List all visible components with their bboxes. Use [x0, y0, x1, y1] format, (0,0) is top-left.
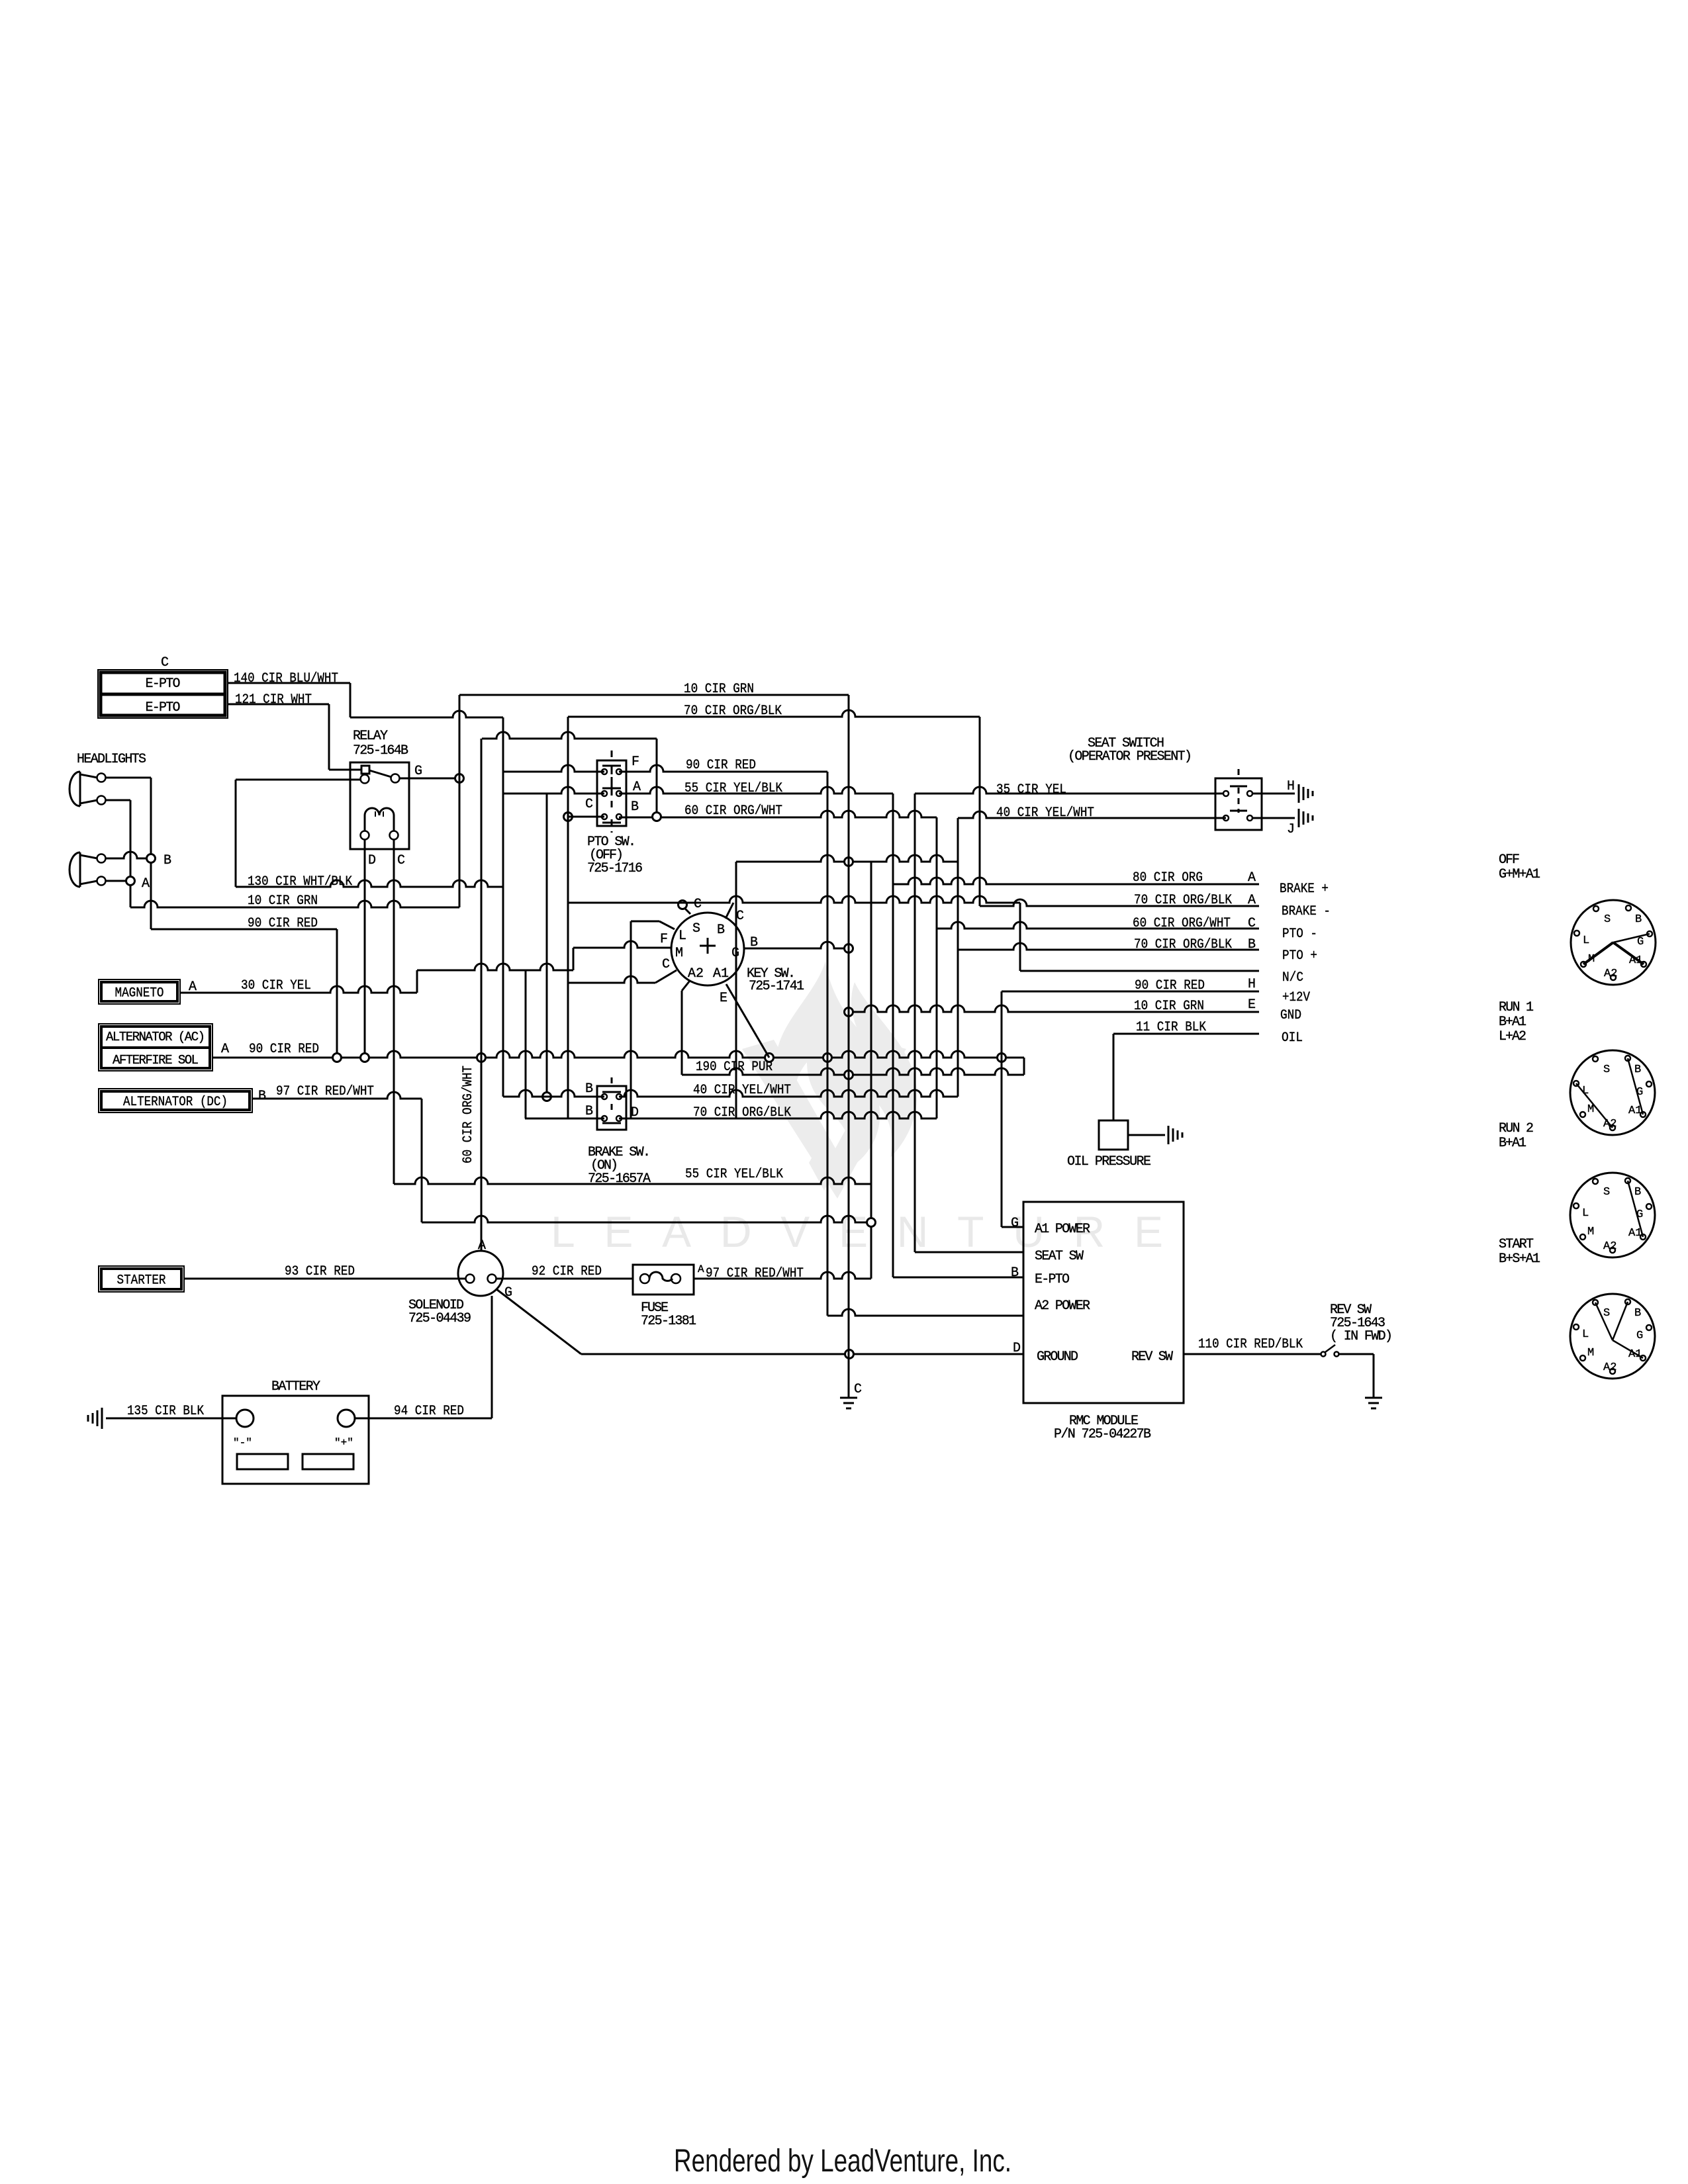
wire E-PTO to PTO+ run: [736, 855, 958, 862]
svg-text:J: J: [1287, 822, 1295, 837]
svg-text:BRAKE -: BRAKE -: [1282, 904, 1331, 919]
key C top-left diagonal: [682, 906, 690, 914]
wire A1 feeder from alternator: [422, 1216, 871, 1222]
watermark flame logo: [742, 961, 917, 1199]
wire 90 CIR RED main bus: [212, 1051, 1024, 1058]
pto switch box: [597, 760, 626, 826]
svg-text:B: B: [1634, 1064, 1641, 1076]
wire 70 ORG/BLK brake left: [525, 1118, 604, 1120]
wire 10 CIR GRN main vertical bus: [848, 695, 850, 1354]
svg-text:"+": "+": [334, 1437, 353, 1449]
brake pin B top left: [602, 1094, 607, 1099]
key position START diagram: [1570, 1294, 1655, 1379]
svg-text:E: E: [1248, 997, 1256, 1013]
earth ground C: [840, 1397, 857, 1399]
junction 90RED key E: [765, 1054, 774, 1062]
headlight 2 terminal top: [97, 854, 106, 863]
wire RMC E-PTO pin: [893, 1277, 1023, 1279]
key E diagonal: [726, 984, 769, 1058]
headlight 1 terminal top: [97, 774, 106, 782]
svg-text:A2: A2: [688, 966, 704, 981]
junction GND on GRN bus: [845, 1008, 853, 1017]
wire 10 CIR GRN / GND: [849, 1005, 1259, 1012]
wire 121 to relay pin 1: [329, 769, 361, 771]
wire 11 CIR BLK to oil pressure: [1113, 1034, 1115, 1120]
wire PTO F row left: [503, 765, 604, 772]
wire key C left: [568, 976, 655, 983]
svg-text:135 CIR BLK: 135 CIR BLK: [127, 1404, 204, 1419]
relay box: [350, 762, 409, 849]
svg-text:REV SW: REV SW: [1131, 1349, 1173, 1365]
alternator AC / afterfire box: [99, 1024, 212, 1071]
wire headlight1 bottom to A: [106, 799, 130, 801]
svg-text:B: B: [1635, 913, 1642, 926]
svg-text:93 CIR RED: 93 CIR RED: [285, 1264, 355, 1279]
pto pin B right: [616, 814, 622, 819]
relay coil pin D: [361, 831, 369, 840]
wire oil pressure to ground: [1128, 1134, 1165, 1136]
wire 55 CIR YEL/BLK lower: [394, 1177, 871, 1184]
battery negative ground: [101, 1408, 103, 1429]
wire 55 CIR YEL/BLK: [619, 787, 893, 794]
svg-text:140 CIR BLU/WHT: 140 CIR BLU/WHT: [234, 671, 338, 686]
svg-text:S: S: [1603, 1307, 1610, 1320]
battery box: [222, 1396, 369, 1484]
svg-text:A1: A1: [1628, 1227, 1642, 1240]
wire rev switch ground vertical: [1373, 1354, 1375, 1398]
svg-text:35 CIR YEL: 35 CIR YEL: [996, 782, 1066, 797]
wire 70 CIR ORG/BLK / BRAKE-: [980, 899, 1259, 906]
wire 40 CIR YEL/WHT seat: [958, 811, 1226, 818]
svg-text:RUN 2: RUN 2: [1499, 1121, 1534, 1136]
pto switch A contact bar: [602, 788, 621, 790]
svg-text:C: C: [854, 1382, 862, 1397]
svg-text:MAGNETO: MAGNETO: [115, 986, 164, 1001]
wire node A vertical: [130, 800, 132, 907]
svg-text:B+A1: B+A1: [1499, 1136, 1526, 1151]
junction 40 YEL/WHT: [543, 1093, 551, 1101]
wire 10 CIR GRN lower: [130, 901, 459, 907]
wire 35 CIR YEL to RMC SEAT SW vertical: [914, 794, 916, 1252]
svg-text:A: A: [478, 1238, 486, 1253]
svg-text:725-04439: 725-04439: [408, 1311, 471, 1326]
svg-text:B: B: [1634, 1307, 1641, 1320]
pto switch F contact bar: [602, 765, 621, 767]
seat pin H right: [1247, 791, 1252, 796]
wire 30 CIR YEL jog1: [416, 970, 418, 993]
svg-text:A: A: [142, 876, 150, 891]
svg-text:A1: A1: [713, 966, 729, 981]
svg-text:G+M+A1: G+M+A1: [1499, 867, 1540, 882]
svg-text:A1: A1: [1628, 1105, 1642, 1117]
svg-text:725-164B: 725-164B: [353, 743, 408, 758]
brake switch dashed actuator: [611, 1077, 613, 1087]
svg-text:N/C: N/C: [1282, 970, 1303, 985]
headlight 2 terminal bottom: [97, 877, 106, 886]
junction ground C: [845, 1350, 854, 1359]
key position OFF diagram: [1571, 900, 1656, 985]
seat switch box: [1215, 778, 1262, 830]
svg-text:725-1741: 725-1741: [749, 979, 804, 994]
relay coil pin C: [390, 831, 399, 840]
wire 55 net long vertical: [892, 794, 894, 1277]
svg-text:S: S: [1603, 1064, 1610, 1076]
svg-text:B+A1: B+A1: [1499, 1015, 1526, 1030]
fuse pin right: [671, 1274, 680, 1283]
svg-text:A2: A2: [1604, 968, 1617, 980]
svg-text:B: B: [164, 853, 171, 868]
wire 90 CIR RED pto vertical / A2 feeder: [827, 772, 829, 1316]
RMC module box: [1023, 1202, 1184, 1403]
solenoid pin left: [466, 1275, 475, 1283]
wire solenoid branch to PTO: [482, 732, 657, 739]
wire 35 CIR YEL to seat: [915, 787, 1226, 794]
wire key C line: [568, 896, 1020, 903]
svg-text:S: S: [1604, 913, 1611, 926]
wire PTO B row left: [568, 816, 604, 818]
svg-text:C: C: [161, 655, 169, 670]
wire 60 CIR ORG/WHT solenoid feed vertical: [481, 739, 483, 1251]
svg-text:A: A: [221, 1042, 229, 1057]
svg-text:Rendered by LeadVenture, Inc.: Rendered by LeadVenture, Inc.: [674, 2144, 1011, 2179]
pto switch B contact bar: [602, 822, 621, 824]
svg-text:HEADLIGHTS: HEADLIGHTS: [77, 752, 146, 767]
svg-text:ALTERNATOR (DC): ALTERNATOR (DC): [123, 1095, 228, 1110]
svg-text:L+A2: L+A2: [1499, 1029, 1526, 1044]
svg-text:C: C: [736, 909, 744, 924]
rev switch blade: [1325, 1345, 1335, 1352]
wire 40 YEL/WHT brake right: [619, 1090, 958, 1097]
wire seat H to ground: [1252, 793, 1295, 795]
relay coil: [365, 808, 394, 835]
svg-text:P/N 725-04227B: P/N 725-04227B: [1054, 1427, 1151, 1442]
svg-text:C: C: [694, 897, 702, 912]
solenoid pin right: [488, 1275, 496, 1283]
seat pin J right: [1247, 815, 1252, 821]
svg-text:60 CIR ORG/WHT: 60 CIR ORG/WHT: [461, 1066, 476, 1163]
svg-text:A2 POWER: A2 POWER: [1035, 1298, 1090, 1314]
svg-text:G: G: [414, 764, 422, 779]
svg-text:H: H: [1248, 977, 1256, 992]
wire 70 CIR ORG/BLK top left segment: [350, 711, 503, 717]
wire 90 CIR RED pto F out: [619, 765, 827, 772]
svg-text:97 CIR RED/WHT: 97 CIR RED/WHT: [276, 1084, 374, 1099]
svg-text:94 CIR RED: 94 CIR RED: [394, 1404, 464, 1419]
svg-text:G: G: [1636, 1330, 1643, 1342]
svg-text:C: C: [585, 797, 593, 812]
wire 90 CIR RED headlights: [151, 929, 337, 931]
seat switch dashed actuator: [1238, 769, 1240, 778]
wire GROUND line: [581, 1353, 1023, 1355]
brake pin top right: [616, 1094, 622, 1099]
wire 130 CIR WHT/BLK: [236, 880, 503, 887]
wire vertical to PTO B junction: [656, 739, 658, 817]
svg-text:A1 POWER: A1 POWER: [1035, 1222, 1090, 1237]
battery cell 2: [303, 1454, 353, 1469]
svg-text:190 CIR PUR: 190 CIR PUR: [696, 1060, 773, 1075]
svg-text:L: L: [679, 929, 686, 944]
svg-text:E-PTO: E-PTO: [1035, 1272, 1070, 1287]
svg-text:C: C: [397, 853, 405, 868]
wire key C to N/C vertical: [1019, 903, 1021, 971]
wire 10 CIR GRN top: [459, 694, 849, 696]
svg-text:RELAY: RELAY: [353, 729, 388, 744]
wire headlight2 top to B: [106, 852, 151, 858]
key C top-right diagonal: [726, 903, 733, 919]
seat pin H left: [1223, 791, 1229, 796]
fuse element: [649, 1272, 673, 1281]
svg-text:110 CIR RED/BLK: 110 CIR RED/BLK: [1198, 1337, 1303, 1352]
oil pressure box: [1099, 1120, 1128, 1150]
wire 130 frame left vertical: [235, 780, 237, 887]
key switch circle: [671, 913, 744, 985]
connector E-PTO (top): [98, 670, 228, 718]
wire headlight1 top to B: [106, 777, 151, 779]
svg-text:PTO -: PTO -: [1282, 927, 1317, 942]
svg-text:START: START: [1499, 1237, 1534, 1252]
node G junction: [455, 774, 464, 783]
brake pin B bottom left: [602, 1116, 607, 1121]
svg-text:D: D: [368, 853, 376, 868]
svg-text:(OPERATOR PRESENT): (OPERATOR PRESENT): [1068, 749, 1192, 764]
svg-text:PTO +: PTO +: [1282, 948, 1317, 964]
seat pin J left: [1223, 815, 1229, 821]
wire 94 CIR RED vertical: [491, 1296, 493, 1418]
junction PTO B: [653, 813, 661, 821]
svg-text:A2: A2: [1603, 1240, 1617, 1253]
node B junction: [147, 854, 156, 863]
wire 97 CIR RED/WHT alt: [252, 1092, 422, 1099]
svg-text:A2: A2: [1603, 1361, 1617, 1374]
wire to 40 CIR YEL/WHT vertical: [546, 794, 548, 1097]
solenoid circle: [458, 1251, 503, 1296]
battery positive terminal: [338, 1410, 355, 1427]
key switch cross: [700, 945, 716, 947]
wire 140 CIR BLU/WHT: [228, 682, 350, 684]
wire 70 ORG/BLK brake right: [619, 1112, 937, 1118]
svg-text:90 CIR RED: 90 CIR RED: [249, 1042, 319, 1057]
junction 90RED x1250: [823, 1054, 832, 1062]
wire 121 CIR WHT vertical: [328, 704, 330, 770]
wire key F vertical: [630, 921, 632, 1118]
svg-text:B: B: [258, 1089, 266, 1104]
wire 92 CIR RED: [496, 1278, 633, 1280]
svg-text:BATTERY: BATTERY: [271, 1379, 320, 1394]
svg-text:GROUND: GROUND: [1037, 1349, 1078, 1365]
svg-text:30 CIR YEL: 30 CIR YEL: [241, 978, 311, 993]
svg-text:B: B: [717, 923, 725, 938]
svg-text:L: L: [1582, 1207, 1589, 1220]
wire 11 CIR BLK / OIL: [1113, 1033, 1259, 1035]
wire 90 CIR RED vertical: [336, 929, 338, 1058]
svg-text:92 CIR RED: 92 CIR RED: [532, 1264, 602, 1279]
wire headlight2 bottom to A: [106, 880, 130, 882]
wire 90 CIR RED / +12V: [1002, 991, 1259, 993]
node A junction: [126, 877, 135, 886]
svg-text:S: S: [692, 921, 700, 936]
wire RMC A2 POWER feed: [827, 1309, 1023, 1316]
svg-text:L: L: [1583, 934, 1589, 947]
wire N/C: [1020, 970, 1259, 972]
svg-text:OIL PRESSURE: OIL PRESSURE: [1067, 1154, 1151, 1169]
pto pin A right: [616, 791, 622, 796]
wire key F: [631, 921, 659, 923]
wire 94 CIR RED: [355, 1418, 492, 1420]
seat switch H ground: [1298, 784, 1300, 803]
wire relay D to 90 CIR RED bus: [364, 839, 366, 1058]
wire 70 ORG/BLK to BRAKE- vertical: [979, 717, 981, 906]
battery cell 1: [237, 1454, 288, 1469]
wire 97 CIR RED/WHT: [694, 1272, 871, 1279]
wire 90 RED to +12V and A1 vertical: [1001, 991, 1003, 1227]
junction 97 net: [867, 1218, 876, 1227]
wire 30 CIR YEL: [180, 986, 417, 993]
svg-text:OFF: OFF: [1499, 852, 1520, 868]
svg-text:B+S+A1: B+S+A1: [1499, 1251, 1540, 1267]
wire 140 CIR BLU/WHT vertical: [350, 683, 352, 717]
svg-text:+12V: +12V: [1282, 990, 1310, 1005]
rev switch contact left: [1321, 1352, 1326, 1357]
pto pin B left: [602, 814, 607, 819]
seat switch J ground: [1298, 809, 1300, 827]
svg-text:B: B: [1011, 1265, 1019, 1281]
wire 130/40 net vertical: [502, 717, 504, 1097]
wire 80 CIR ORG / BRAKE+: [893, 878, 1259, 884]
pto pin F left: [602, 769, 607, 774]
wire 93 CIR RED: [184, 1278, 465, 1280]
svg-text:M: M: [675, 946, 683, 961]
svg-text:OIL: OIL: [1282, 1030, 1303, 1046]
svg-text:( IN FWD): ( IN FWD): [1330, 1329, 1393, 1344]
magneto box: [99, 979, 180, 1004]
fuse pin left: [640, 1274, 649, 1283]
junction PTO C: [564, 813, 573, 821]
pto pin F right: [616, 769, 622, 774]
wire node B vertical: [150, 778, 152, 929]
svg-text:G: G: [1637, 936, 1644, 948]
key position START blades: [1595, 1302, 1613, 1340]
wire 70 CIR ORG/BLK top: [568, 710, 980, 717]
brake pin D right: [616, 1116, 622, 1121]
wire 60 CIR ORG/WHT / PTO-: [937, 922, 1259, 929]
svg-text:STARTER: STARTER: [117, 1273, 166, 1289]
wire key B/G: [744, 942, 849, 948]
svg-text:L: L: [1582, 1328, 1589, 1341]
wire E-PTO vertical: [735, 862, 737, 1118]
wire seat J to ground: [1252, 817, 1295, 819]
svg-text:B: B: [585, 1081, 593, 1097]
wire 190 CIR PUR: [682, 1068, 1024, 1075]
wire 135 CIR BLK: [106, 1418, 236, 1420]
solenoid G diagonal: [496, 1289, 581, 1354]
wire 70 CIR ORG/BLK left vertical: [567, 717, 569, 1118]
battery negative terminal: [236, 1410, 254, 1427]
wire E-PTO net vertical: [870, 862, 872, 1279]
relay pin 1: [361, 766, 369, 774]
brake switch contact bars: [602, 1091, 621, 1093]
headlight lamp 2: [79, 852, 81, 887]
svg-text:M: M: [1587, 1226, 1594, 1238]
wire 30 CIR YEL to key M: [573, 941, 672, 948]
fuse box: [633, 1265, 694, 1295]
svg-text:725-1381: 725-1381: [641, 1314, 696, 1329]
svg-text:E: E: [720, 991, 727, 1006]
svg-text:G: G: [1011, 1216, 1019, 1231]
headlight 1 terminal bottom: [97, 796, 106, 805]
svg-text:B: B: [631, 799, 639, 815]
svg-text:E-PTO: E-PTO: [146, 700, 181, 715]
wire 70 CIR ORG/BLK / PTO+: [958, 943, 1259, 950]
wire rev switch to ground: [1339, 1353, 1374, 1355]
svg-text:GND: GND: [1280, 1008, 1301, 1023]
svg-text:SEAT SW: SEAT SW: [1035, 1249, 1084, 1264]
svg-text:A: A: [698, 1263, 704, 1275]
starter box: [99, 1266, 184, 1292]
wire 40 YEL/WHT brake left: [503, 1090, 604, 1097]
svg-text:BRAKE +: BRAKE +: [1280, 882, 1329, 897]
pto switch dashed actuator: [611, 751, 613, 762]
pto pin A left: [602, 791, 607, 796]
svg-text:F: F: [660, 932, 668, 947]
wire RMC A1 POWER pin: [1002, 1226, 1023, 1228]
svg-text:F: F: [632, 754, 639, 770]
junction 90RED x509: [333, 1054, 342, 1062]
junction 90RED relay D: [361, 1054, 369, 1062]
wire 97 alt vertical: [421, 1099, 423, 1222]
svg-text:E-PTO: E-PTO: [146, 676, 181, 692]
key F diagonal: [659, 921, 675, 929]
wire node G vertical (10 CIR GRN): [459, 695, 461, 907]
svg-text:H: H: [1287, 779, 1295, 794]
svg-text:B: B: [1634, 1186, 1641, 1199]
svg-text:121 CIR WHT: 121 CIR WHT: [235, 692, 312, 707]
wire 30YEL to 70 ORG/BLK vertical: [525, 970, 527, 1118]
wire 190 CIR PUR vertical: [681, 991, 683, 1075]
oil pressure ground: [1168, 1126, 1170, 1144]
brake switch box: [597, 1086, 626, 1130]
svg-text:S: S: [1603, 1186, 1610, 1199]
relay switch output contact: [391, 774, 400, 783]
junction 190 PUR: [845, 1071, 853, 1079]
wire 60 CIR ORG/WHT / 40 merged: [619, 811, 937, 817]
seat switch contact bars: [1230, 786, 1247, 788]
key position OFF blades: [1613, 934, 1650, 942]
rev switch contact right: [1335, 1352, 1339, 1357]
svg-text:M: M: [1587, 1347, 1594, 1359]
svg-text:B: B: [585, 1104, 593, 1119]
wire RMC SEAT SW feed: [915, 1251, 1023, 1253]
svg-text:55 CIR YEL/BLK: 55 CIR YEL/BLK: [685, 1167, 783, 1182]
wire 30 CIR YEL jog2: [573, 948, 575, 970]
relay switch blade: [369, 770, 391, 777]
junction E-PTO on GRN bus: [845, 858, 853, 866]
wire 121 CIR WHT: [228, 704, 329, 705]
wire 130 frame top to relay pin 2: [236, 779, 361, 781]
key A2 diagonal: [682, 981, 690, 991]
wire 40 seat feeder vertical: [957, 818, 959, 1097]
earth ground rev switch: [1365, 1397, 1382, 1399]
key position RUN2 diagram: [1570, 1173, 1655, 1257]
wire 30 CIR YEL mid: [417, 964, 573, 970]
wire relay C to 55 CIR YEL/BLK bus: [393, 839, 395, 1184]
key C left diagonal: [655, 970, 677, 983]
key position RUN1 diagram: [1570, 1050, 1655, 1135]
wire relay output to node G: [399, 778, 459, 780]
relay pin 2: [361, 775, 369, 784]
wire 90RED to PUR link: [1023, 1058, 1025, 1075]
wire to C ground: [848, 1354, 850, 1398]
svg-text:RUN 1: RUN 1: [1499, 1000, 1534, 1015]
